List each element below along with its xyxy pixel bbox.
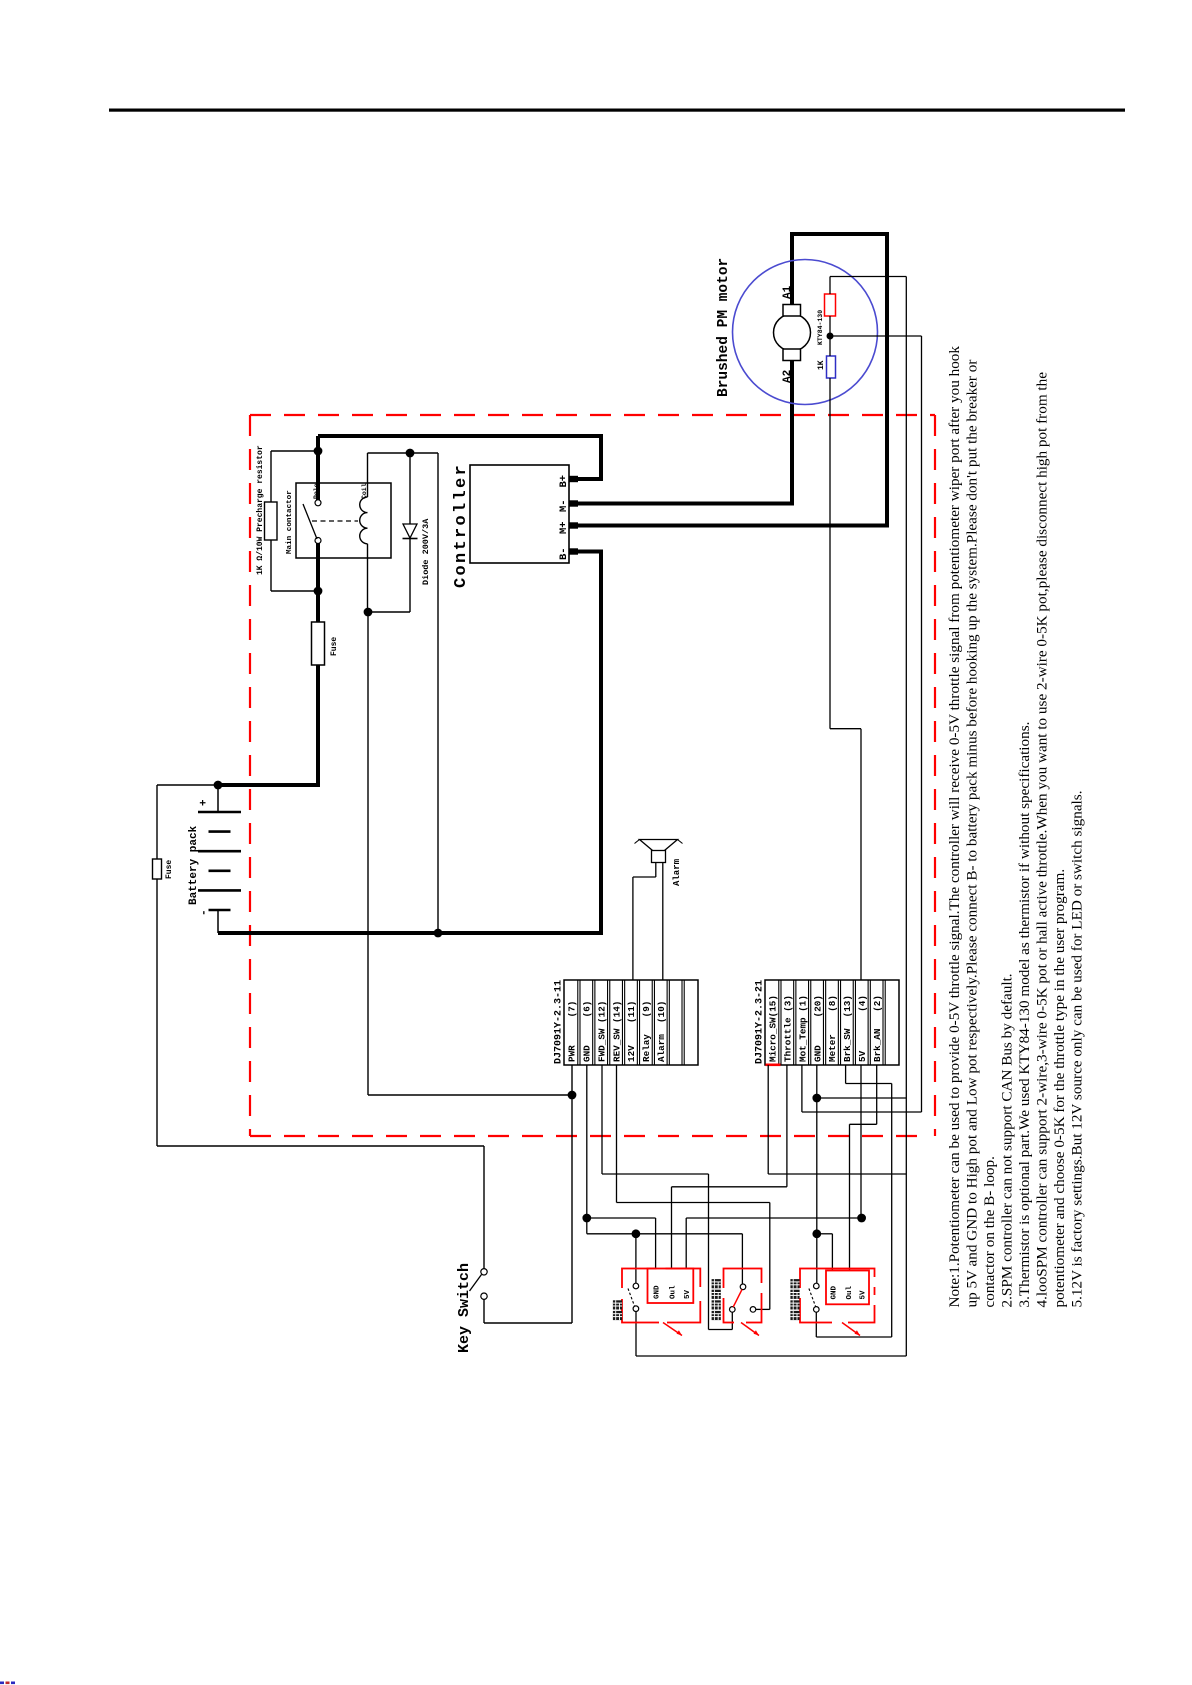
wire GND left <box>586 1065 588 1234</box>
throttle unit box <box>622 1269 700 1323</box>
wire GND bus H2a <box>587 1233 743 1235</box>
svg-text:DJ7091Y-2.3-11: DJ7091Y-2.3-11 <box>554 980 565 1064</box>
alarm speaker LS1 <box>640 840 678 856</box>
wire Brk_AN <box>876 1065 878 1124</box>
precharge resistor R1 <box>265 502 278 540</box>
svg-text:GND: GND <box>654 1285 662 1299</box>
node GND20/H2b <box>812 1229 821 1238</box>
svg-text:5V: 5V <box>684 1289 692 1299</box>
svg-text:3.Thermistor is optional part.: 3.Thermistor is optional part.We used KT… <box>1016 722 1033 1308</box>
node precharge top <box>314 447 323 456</box>
svg-text:Brk_SW (13): Brk_SW (13) <box>842 995 853 1062</box>
wire KTY to 1K midtap <box>829 316 831 356</box>
svg-text:5V (4): 5V (4) <box>857 995 868 1062</box>
contactor blade <box>303 504 317 539</box>
battery compartment dashed outline <box>250 414 935 416</box>
wire FWD_SW <box>601 1065 603 1174</box>
svg-text:Pole: Pole <box>313 483 320 499</box>
svg-text:M-: M- <box>558 499 570 512</box>
svg-text:Brushed PM motor: Brushed PM motor <box>716 258 732 397</box>
svg-text:1K Ω/10W Precharge resistor: 1K Ω/10W Precharge resistor <box>256 445 265 575</box>
page corner mark <box>0 1682 15 1685</box>
svg-text:contactor on the B- loop.: contactor on the B- loop. <box>981 1156 998 1307</box>
svg-text:Fuse: Fuse <box>165 860 174 879</box>
box2 switch <box>740 1284 746 1290</box>
svg-text:Fuse: Fuse <box>330 637 339 656</box>
node on B- bus <box>434 929 443 938</box>
wire B- <box>218 552 601 934</box>
wire H1a to pot1 GND <box>587 1217 656 1219</box>
svg-text:2.SPM controller can not suppo: 2.SPM controller can not support CAN Bus… <box>998 973 1015 1307</box>
svg-text:Throttle (3): Throttle (3) <box>783 995 794 1062</box>
wire 5V <box>860 1065 862 1218</box>
svg-text:PWR (7): PWR (7) <box>567 1001 578 1062</box>
svg-text:Relay (9): Relay (9) <box>641 1001 652 1062</box>
wire Mot_Temp <box>801 1065 803 1112</box>
svg-text:B-: B- <box>558 547 570 560</box>
wire diode bottom to coil bottom <box>368 611 410 613</box>
node precharge bottom <box>314 587 323 596</box>
svg-text:Main contactor: Main contactor <box>286 490 294 554</box>
brush A2 <box>783 349 801 361</box>
main contactor K1 <box>296 483 391 558</box>
node GND/H1a <box>582 1214 591 1223</box>
wire H2b to pot3 GND <box>817 1233 833 1235</box>
junction battery plus <box>214 781 223 790</box>
wire B+ <box>318 436 601 479</box>
battery pack <box>217 785 219 812</box>
svg-text:Alarm (10): Alarm (10) <box>656 1001 667 1062</box>
wire ground return loop <box>636 1355 906 1357</box>
svg-text:DJ7091Y-2.3-21: DJ7091Y-2.3-21 <box>755 980 766 1064</box>
wire H2a to box2 common <box>741 1234 743 1284</box>
fuse F1 main <box>312 622 325 665</box>
svg-text:1K: 1K <box>817 360 826 370</box>
wire Brk_SW <box>845 1065 847 1084</box>
wire 1K bottom to 5V <box>829 378 831 729</box>
wire relay drive to PWR <box>367 612 369 1095</box>
node PWR junction <box>568 1091 577 1100</box>
box3 microswitch <box>814 1283 820 1289</box>
svg-text:Alarm: Alarm <box>672 858 682 886</box>
wire Micro_SW <box>767 1065 769 1174</box>
svg-text:M+: M+ <box>558 521 570 534</box>
wire coil top node <box>368 452 439 454</box>
svg-text:Oul: Oul <box>670 1285 678 1299</box>
brushed PM motor M1 <box>733 260 878 405</box>
wire Throttle <box>786 1065 788 1187</box>
node 5V/H1b <box>857 1214 866 1223</box>
thermistor KTY84-130 <box>825 294 836 316</box>
box1 wiper arrow <box>663 1323 682 1336</box>
box3 wiper arrow <box>842 1323 860 1336</box>
svg-text:4.looSPM controller can suppor: 4.looSPM controller can support 2-wire,3… <box>1034 372 1051 1308</box>
svg-text:A2: A2 <box>782 370 794 383</box>
box1 microswitch <box>633 1283 639 1289</box>
svg-text:GND (6): GND (6) <box>582 1001 593 1062</box>
diode D1 200V/3A <box>409 453 411 524</box>
node GND20 <box>812 1094 821 1103</box>
resistor 1K <box>827 356 836 378</box>
wire KTY top to GND line <box>829 277 831 295</box>
svg-text:Note:1.Potentiometer can be us: Note:1.Potentiometer can be used to prov… <box>946 346 963 1308</box>
svg-text:Battery pack: Battery pack <box>188 825 200 905</box>
wire M+ to A1 <box>578 234 887 526</box>
wire GND right <box>816 1065 818 1283</box>
node midtap <box>827 333 834 340</box>
wire speaker to 12V <box>655 863 657 878</box>
wire midtap to Mot_Temp <box>830 335 922 337</box>
svg-text:B+: B+ <box>558 475 570 488</box>
controller U1 <box>470 465 569 563</box>
svg-text:potentiometer and choose 0-5K: potentiometer and choose 0-5K for the th… <box>1051 869 1068 1308</box>
svg-text:5V: 5V <box>860 1290 868 1300</box>
connector J2 DJ7091Y-2.3-21 <box>765 980 899 1065</box>
key switch <box>481 1269 487 1275</box>
node box1 switch top <box>632 1229 641 1238</box>
svg-text:Mot_Temp (1): Mot_Temp (1) <box>797 995 808 1062</box>
contactor coil <box>367 453 369 497</box>
svg-text:12V (11): 12V (11) <box>626 1001 637 1062</box>
svg-text:Brk_AN (2): Brk_AN (2) <box>872 995 883 1062</box>
svg-text:up 5V and GND to High pot and: up 5V and GND to High pot and Low pot re… <box>963 360 980 1308</box>
wire speaker to Alarm pin <box>662 863 664 981</box>
wire fuse to key switch <box>156 879 158 1146</box>
svg-text:+: + <box>199 799 211 806</box>
svg-text:Micro_SW(15): Micro_SW(15) <box>768 995 779 1062</box>
wire M- to A2 <box>578 360 792 504</box>
node diode top <box>406 449 415 458</box>
svg-text:GND (20): GND (20) <box>812 995 823 1062</box>
node coil bottom <box>364 608 373 617</box>
svg-text:Meter (8): Meter (8) <box>827 995 838 1062</box>
svg-text:Key Switch: Key Switch <box>456 1263 473 1353</box>
svg-text:GND: GND <box>831 1285 839 1299</box>
svg-text:REV_SW (14): REV_SW (14) <box>611 1001 622 1062</box>
long GND/KTY wire <box>905 277 907 1357</box>
brake switch box <box>724 1269 762 1323</box>
svg-text:FWD_SW (12): FWD_SW (12) <box>596 1001 607 1062</box>
svg-text:-: - <box>199 909 211 916</box>
svg-text:A1: A1 <box>782 285 794 299</box>
pin1 red mark <box>766 1064 781 1067</box>
top rule <box>109 109 1125 112</box>
wire coil-top node to B- bus <box>437 453 439 933</box>
svg-text:5.12V is factory settings.But: 5.12V is factory settings.But 12V source… <box>1069 791 1086 1308</box>
brush A1 <box>783 305 801 317</box>
wire REV_SW <box>616 1065 618 1203</box>
fuse F2 <box>153 859 162 879</box>
connector J1 DJ7091Y-2.3-11 <box>564 980 698 1065</box>
wire key switch to PWR <box>483 1299 485 1323</box>
box2 wiper arrow <box>741 1323 759 1336</box>
svg-text:KTY84-130: KTY84-130 <box>817 310 824 345</box>
wire battery+ to key switch <box>157 784 218 786</box>
svg-text:Diode 200V/3A: Diode 200V/3A <box>421 518 431 585</box>
wire battery+ thick <box>218 665 318 785</box>
svg-text:Oul: Oul <box>846 1285 854 1299</box>
contactor link dashed <box>312 520 358 522</box>
svg-text:Controller: Controller <box>452 463 471 588</box>
brake pedal unit box <box>800 1269 875 1323</box>
